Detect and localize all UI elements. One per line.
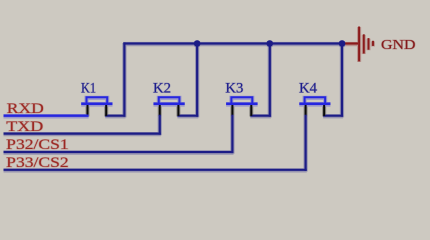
svg-text:K3: K3 [225,81,243,97]
svg-text:K1: K1 [81,81,96,97]
svg-text:RXD: RXD [7,101,44,117]
svg-text:K2: K2 [153,81,171,97]
svg-text:P33/CS2: P33/CS2 [6,155,68,171]
svg-text:GND: GND [381,38,416,53]
svg-text:P32/CS1: P32/CS1 [6,137,68,153]
svg-text:K4: K4 [299,81,317,97]
svg-text:TXD: TXD [6,119,43,135]
